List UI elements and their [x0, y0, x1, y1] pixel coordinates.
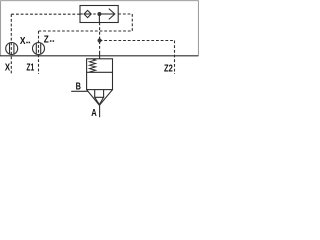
poppet cone	[95, 97, 104, 104]
pilot line Z2: horizontal dashed branch	[100, 40, 175, 42]
orifice plug Z chords	[35, 43, 37, 53]
pilot vertical dashed from shuttle to cartridge	[99, 23, 101, 53]
cartridge spring	[90, 59, 96, 72]
port A line	[99, 105, 101, 117]
shuttle valve diamond (left seat)	[84, 10, 91, 17]
right loop vertical dashed	[131, 14, 133, 31]
orifice plug X chords	[9, 43, 11, 53]
pilot line Z2: vertical dashed to port Z2	[174, 41, 176, 75]
shuttle valve output junction dot	[97, 12, 101, 16]
shuttle valve arrow (right)	[109, 9, 115, 20]
shuttle valve internal dashed lead-in	[80, 13, 84, 15]
cartridge valve body	[87, 59, 113, 90]
shuttle valve diamond internal line	[84, 13, 91, 15]
wire: solid drop from shuttle dot to box bottom	[98, 14, 100, 23]
svg-text:X: X	[20, 36, 26, 47]
pilot vertical solid segment into cartridge	[99, 52, 101, 59]
cover plate frame (top, left, right edges)	[1, 1, 199, 56]
orifice plug circle Z	[33, 43, 45, 55]
svg-text:X: X	[5, 63, 10, 74]
pilot line X: horizontal dashed from corner to box	[11, 13, 80, 15]
orifice plug circle X	[6, 43, 18, 55]
svg-text:A: A	[91, 108, 97, 119]
pilot line X: vertical dashed from corner to port X	[10, 14, 12, 74]
poppet neck right vertical	[103, 90, 105, 98]
shuttle valve box	[80, 6, 118, 23]
poppet neck left vertical	[94, 90, 96, 98]
seat right diagonal	[99, 90, 112, 106]
seat left diagonal	[87, 90, 100, 106]
pilot line Z1: horizontal dashed to right loop	[39, 30, 133, 32]
cartridge internal piston line	[87, 71, 113, 73]
right loop horizontal dashed into shuttle right side	[118, 13, 132, 15]
shuttle valve arrow shaft	[99, 13, 114, 15]
shuttle valve internal dash segment	[93, 13, 95, 15]
label X trailing dots	[26, 42, 28, 44]
label Z trailing dots	[50, 40, 52, 42]
svg-text:Z1: Z1	[26, 63, 34, 74]
port B stub line	[71, 90, 88, 92]
pilot line Z1: vertical dashed from corner to port Z1	[38, 31, 40, 74]
junction dot on pilot line	[98, 38, 102, 42]
svg-text:Z2: Z2	[164, 64, 173, 75]
svg-text:B: B	[76, 82, 82, 93]
cover plate bottom edge line	[0, 55, 198, 57]
svg-text:Z: Z	[44, 34, 50, 45]
